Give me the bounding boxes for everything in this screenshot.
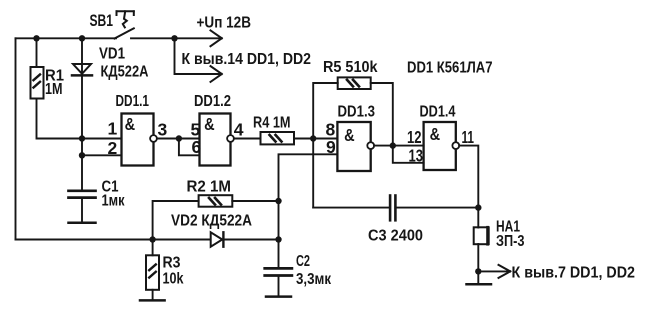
svg-text:&: & — [204, 114, 215, 134]
resistor R1 — [31, 67, 44, 99]
svg-text:R2 1M: R2 1M — [187, 179, 232, 196]
wire R3 top stem — [152, 240, 154, 256]
inversion bubble DD1.4 output — [452, 142, 459, 149]
capacitor C2 — [265, 268, 292, 275]
wire R4 to DD1.3 pin 8 — [294, 138, 337, 140]
svg-text:R4 1M: R4 1M — [253, 115, 291, 132]
wire VD1 vertical line through C1 column — [81, 38, 83, 190]
svg-text:КД522А: КД522А — [101, 64, 149, 81]
arrow +Up 12V — [211, 30, 222, 46]
wire VD2 cathode to C2 column — [223, 239, 278, 241]
diode VD2 — [211, 232, 224, 246]
wire R1 top stem — [36, 38, 38, 67]
wire C3 right segment to HA1 line — [396, 207, 479, 209]
node pin2 junction — [79, 152, 85, 158]
svg-text:2: 2 — [108, 138, 118, 158]
wire top bus right of switch to +U arrow — [131, 37, 220, 39]
svg-text:13: 13 — [409, 146, 424, 166]
arrow K vyv.14 — [211, 66, 222, 82]
ground under C2 — [266, 295, 291, 298]
op-amp gate DD1.1 — [122, 114, 154, 166]
wire DD1.1 output to DD1.2 pin 5 — [157, 138, 200, 140]
inversion bubble DD1.2 output — [227, 135, 234, 142]
wire pin 2 of DD1.1 — [82, 154, 122, 156]
svg-text:DD1.2: DD1.2 — [194, 93, 231, 110]
svg-text:12: 12 — [407, 127, 422, 147]
node output branch junction — [475, 268, 481, 274]
wire C2 column vertical — [278, 201, 280, 268]
switch SB1 — [115, 11, 134, 38]
svg-text:К выв.14 DD1, DD2: К выв.14 DD1, DD2 — [182, 51, 312, 68]
wire C3 horizontal left segment — [313, 207, 390, 209]
svg-text:DD1.1: DD1.1 — [116, 93, 150, 110]
wire DD1.2 output to R4 — [234, 138, 261, 140]
svg-text:ЗП-3: ЗП-3 — [496, 233, 525, 250]
wire R2 left down to bottom bus — [153, 201, 199, 240]
wire C2 bottom stem — [278, 276, 280, 296]
svg-text:R5 510k: R5 510k — [323, 59, 378, 76]
svg-text:9: 9 — [326, 137, 336, 157]
resistor R5 — [338, 77, 371, 89]
svg-text:1M: 1M — [45, 81, 63, 98]
node pin1 junction — [79, 135, 85, 141]
wire pin 1 of DD1.1 — [82, 138, 122, 140]
wire output arrow line — [478, 270, 509, 272]
wire bottom bus left segment — [16, 239, 211, 241]
svg-text:3: 3 — [158, 120, 168, 140]
node VD2/C2 junction — [275, 236, 281, 242]
wire R1 bottom to pin1 node — [37, 99, 83, 139]
node power branch junction — [171, 35, 177, 41]
svg-text:6: 6 — [192, 137, 202, 157]
wire DD1.3 output to DD1.4 pin 12 — [374, 145, 424, 147]
inversion bubble DD1.3 output — [367, 142, 374, 149]
buzzer HA1 — [474, 227, 489, 244]
node R4/R5/pin8/C3 junction — [310, 135, 316, 141]
node bottom bus left junction — [149, 236, 155, 242]
svg-text:R3: R3 — [163, 255, 181, 272]
wire jog to DD1.2 pin 6 — [179, 139, 200, 156]
resistor R4 — [261, 132, 295, 144]
node R2/pin9/C2 junction — [275, 198, 281, 204]
arrow K vyv.7 — [499, 265, 511, 278]
svg-text:&: & — [430, 124, 441, 144]
diode VD1 — [72, 64, 92, 75]
svg-text:DD1 К561ЛА7: DD1 К561ЛА7 — [407, 59, 493, 76]
wire pin 9 of DD1.3 — [279, 154, 338, 201]
svg-text:10k: 10k — [163, 271, 184, 288]
op-amp gate DD1.4 — [424, 122, 456, 170]
svg-text:&: & — [344, 125, 355, 145]
svg-text:1мк: 1мк — [102, 193, 126, 210]
wire HA1 bottom to ground — [477, 244, 479, 283]
wire R5 left down to junction and C3 drop — [313, 83, 338, 208]
node DD1.3 output junction — [390, 142, 396, 148]
capacitor C3 — [390, 196, 395, 221]
svg-text:+Uп 12В: +Uп 12В — [197, 15, 252, 32]
svg-text:VD1: VD1 — [99, 46, 125, 63]
ground under C1 — [69, 222, 96, 225]
wire R5 right down to DD1.3 output junction — [371, 83, 393, 146]
wire branch down to K vyv.14 arrow — [175, 38, 221, 74]
svg-text:VD2 КД522А: VD2 КД522А — [171, 213, 252, 230]
node R1 top junction — [33, 35, 39, 41]
wire top bus left segment — [16, 37, 117, 39]
svg-text:C3 2400: C3 2400 — [368, 227, 423, 244]
wire DD1.4 output right and down to HA1 — [459, 146, 478, 228]
svg-text:1: 1 — [108, 118, 118, 138]
svg-text:DD1.3: DD1.3 — [338, 103, 376, 120]
wire R3 bottom stem — [152, 290, 154, 300]
ground under R3 — [140, 299, 165, 302]
svg-text:4: 4 — [234, 120, 244, 140]
node DD1.1 output junction — [176, 135, 182, 141]
svg-text:C2: C2 — [296, 253, 310, 270]
svg-text:11: 11 — [462, 127, 475, 147]
svg-text:&: & — [125, 114, 136, 134]
svg-text:3,3мк: 3,3мк — [296, 271, 332, 288]
op-amp gate DD1.2 — [200, 114, 231, 166]
resistor R3 — [146, 255, 159, 289]
inversion bubble DD1.1 output — [150, 135, 157, 142]
node VD1 top junction — [79, 35, 85, 41]
ground under HA1 — [467, 283, 492, 286]
resistor R2 — [199, 195, 233, 207]
op-amp gate DD1.3 — [337, 122, 370, 171]
wire jog to DD1.4 pin 13 — [393, 146, 424, 163]
wire left rail vertical — [15, 38, 17, 239]
svg-text:SB1: SB1 — [90, 12, 114, 30]
capacitor C1 — [69, 191, 96, 198]
wire R2 right to C2 column — [232, 200, 278, 202]
svg-text:DD1.4: DD1.4 — [420, 103, 456, 120]
svg-text:К выв.7 DD1, DD2: К выв.7 DD1, DD2 — [512, 265, 636, 282]
wire C1 bottom stem — [81, 198, 83, 222]
node C3/HA1 junction — [475, 204, 481, 210]
